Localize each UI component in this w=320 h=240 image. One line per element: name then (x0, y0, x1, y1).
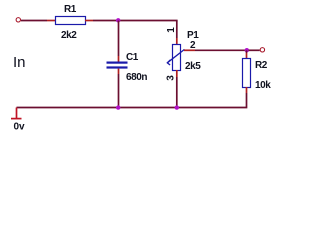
input terminal (16, 18, 20, 22)
svg-text:2k5: 2k5 (185, 61, 201, 72)
wire input to R1 (21, 20, 47, 22)
wire C1 to bottom rail (118, 74, 120, 108)
pin R2 bottom (246, 87, 248, 93)
svg-text:R2: R2 (255, 60, 268, 71)
node junction output (245, 48, 249, 52)
svg-text:10k: 10k (255, 80, 271, 91)
wire R2 to bottom rail (176, 93, 247, 108)
ground 0v tag bar (11, 118, 22, 120)
pin C1 top (118, 56, 120, 62)
svg-text:In: In (13, 54, 26, 71)
wire P1 to bottom rail (176, 77, 178, 108)
wire junction down to C1 (118, 21, 120, 57)
wire R1 to corner (93, 20, 178, 22)
wire corner down to P1 (176, 21, 178, 39)
resistor R2 (243, 59, 251, 88)
output terminal (260, 48, 264, 52)
ground 0v tag stem (16, 108, 18, 119)
svg-text:0v: 0v (14, 121, 26, 132)
potentiometer P1 wiper arrow (167, 49, 184, 65)
resistor R1 (56, 17, 86, 25)
node junction bottom P1 (175, 105, 179, 109)
wire bottom rail (17, 107, 177, 109)
pin R1 left (47, 20, 55, 22)
pin R2 top (246, 53, 248, 58)
svg-text:1: 1 (166, 27, 177, 33)
svg-text:R1: R1 (64, 4, 77, 15)
node junction top (116, 18, 120, 22)
wire wiper to output junction (195, 49, 247, 51)
svg-text:C1: C1 (126, 52, 139, 63)
pin P1 wiper (184, 49, 195, 51)
wire junction to output terminal (249, 49, 260, 51)
pin P1 pin1 (176, 38, 178, 44)
capacitor C1 (107, 62, 128, 69)
pin C1 bottom (118, 69, 120, 74)
svg-text:2: 2 (190, 40, 196, 51)
potentiometer P1 body (173, 45, 181, 71)
pin P1 pin3 (176, 70, 178, 77)
svg-text:680n: 680n (126, 72, 147, 83)
pin R1 right (85, 20, 93, 22)
node junction bottom C1 (116, 105, 120, 109)
svg-text:2k2: 2k2 (61, 30, 77, 41)
svg-text:3: 3 (165, 75, 176, 81)
wire junction down to R2 (246, 50, 248, 53)
